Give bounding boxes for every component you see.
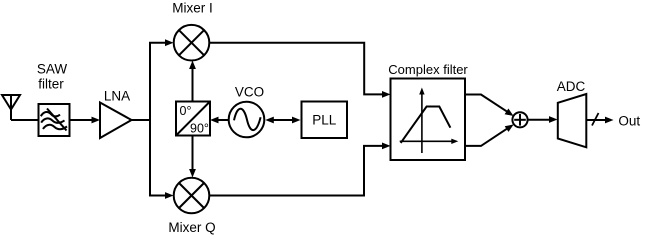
filter graph vertical axis bbox=[400, 88, 459, 154]
mixer I circle bbox=[174, 25, 210, 61]
wire ADC output bbox=[586, 119, 606, 121]
wire VCO to PLL (double arrow) bbox=[271, 119, 295, 121]
svg-text:0°: 0° bbox=[180, 104, 192, 118]
phase shifter diagonal bbox=[176, 102, 210, 136]
arrowhead top into summer bbox=[505, 109, 514, 117]
complex filter box bbox=[391, 79, 466, 161]
wire summer to ADC bbox=[528, 119, 550, 121]
arrowhead up into Mixer I bbox=[189, 61, 196, 70]
phase shifter box 0/90 bbox=[176, 102, 210, 136]
svg-text:LNA: LNA bbox=[104, 89, 130, 104]
arrowhead toward PLL bbox=[292, 117, 301, 124]
filter response curve bbox=[401, 107, 451, 143]
svg-text:ADC: ADC bbox=[557, 79, 586, 94]
wire filter bottom output bbox=[465, 129, 507, 146]
arrowhead into Complex filter top input bbox=[382, 91, 391, 98]
summer circle bbox=[512, 112, 527, 127]
arrowhead down into Mixer Q bbox=[189, 169, 196, 178]
summer plus sign bbox=[514, 114, 526, 126]
amplifier LNA bbox=[100, 103, 132, 139]
wire filter top output bbox=[465, 95, 507, 112]
mixer Q X bbox=[179, 183, 204, 208]
arrowhead into LNA bbox=[92, 117, 101, 124]
wire phase shifter up to Mixer I bbox=[192, 68, 194, 102]
svg-text:filter: filter bbox=[38, 77, 64, 92]
SAW filter wavy symbol bbox=[41, 109, 67, 131]
arrowhead toward VCO bbox=[265, 117, 274, 124]
wire vertical split line bbox=[149, 43, 151, 196]
ADC trapezoid bbox=[558, 94, 587, 147]
wire Mixer I to Complex filter bbox=[209, 43, 382, 95]
wire phase shifter down to Mixer Q bbox=[192, 136, 194, 170]
mixer Q circle bbox=[174, 178, 210, 214]
VCO sine wave bbox=[234, 109, 261, 130]
bus slash bbox=[592, 113, 599, 126]
svg-text:VCO: VCO bbox=[235, 84, 264, 99]
arrowhead into ADC bbox=[549, 116, 558, 123]
wire to Mixer I bbox=[149, 42, 166, 44]
arrowhead into Mixer Q bbox=[165, 192, 174, 199]
oscillator VCO circle bbox=[229, 102, 265, 138]
arrowhead into Complex filter bottom input bbox=[382, 143, 391, 150]
arrowhead into phase shifter bbox=[210, 117, 219, 124]
arrowhead bottom into summer bbox=[505, 124, 514, 131]
antenna bbox=[2, 95, 20, 120]
wire LNA to split node bbox=[132, 119, 151, 121]
wire antenna to SAW filter bbox=[11, 119, 39, 121]
filter graph horizontal axis bbox=[400, 140, 453, 142]
wire VCO to phase shifter bbox=[218, 119, 229, 121]
mixer I X bbox=[179, 30, 204, 55]
wire SAW filter to LNA bbox=[70, 119, 93, 121]
svg-text:Out: Out bbox=[618, 113, 640, 128]
svg-text:PLL: PLL bbox=[312, 113, 337, 128]
SAW filter box bbox=[39, 104, 70, 136]
svg-text:Complex filter: Complex filter bbox=[388, 62, 468, 77]
wire to Mixer Q bbox=[149, 195, 166, 197]
arrowhead to Out bbox=[605, 117, 614, 124]
wire Mixer Q to Complex filter bbox=[209, 146, 382, 196]
svg-text:Mixer Q: Mixer Q bbox=[168, 220, 215, 235]
svg-text:SAW: SAW bbox=[37, 62, 68, 77]
svg-text:Mixer I: Mixer I bbox=[172, 1, 213, 16]
svg-text:90°: 90° bbox=[190, 121, 209, 135]
PLL box bbox=[302, 102, 348, 139]
arrowhead into Mixer I bbox=[165, 39, 174, 46]
